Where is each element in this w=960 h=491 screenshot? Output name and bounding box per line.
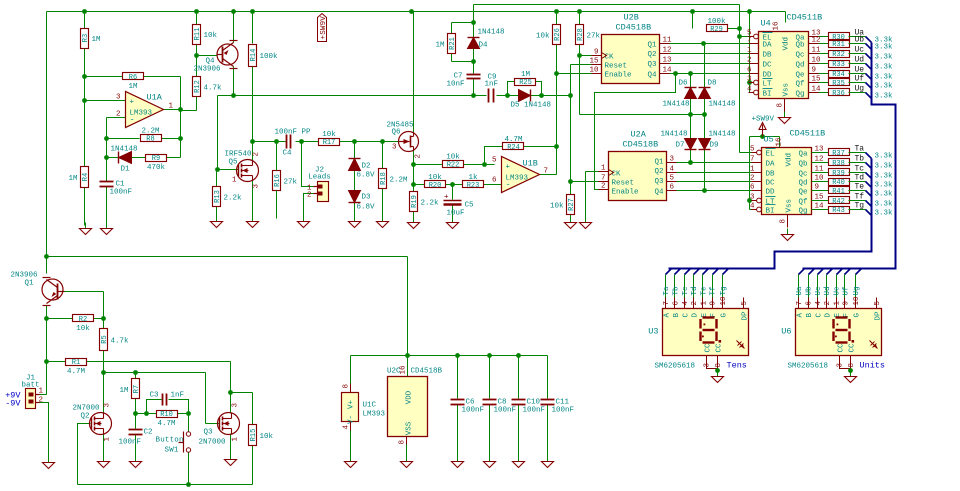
svg-text:10k: 10k: [322, 131, 336, 139]
diode D7: [660, 131, 696, 150]
ground at 216,221: [211, 216, 223, 228]
svg-text:3: 3: [253, 184, 261, 189]
svg-text:100nF: 100nF: [494, 407, 517, 415]
svg-text:2: 2: [415, 154, 423, 159]
svg-text:R14: R14: [250, 49, 258, 62]
svg-text:Q2: Q2: [81, 413, 90, 421]
svg-text:3: 3: [670, 156, 675, 164]
capacitor C5: [444, 194, 475, 218]
svg-text:1M: 1M: [92, 36, 102, 44]
mosfet Q5: [225, 151, 261, 189]
svg-text:10k: 10k: [76, 325, 90, 333]
diode D5: [511, 90, 552, 110]
svg-text:DA: DA: [763, 42, 773, 50]
svg-text:Enable: Enable: [612, 189, 639, 197]
svg-text:C8: C8: [498, 399, 507, 407]
ground at 135,461: [130, 456, 142, 468]
svg-text:1M: 1M: [128, 83, 138, 91]
node rail junctions: [82, 9, 752, 14]
svg-text:470k: 470k: [147, 164, 166, 172]
svg-text:Td: Td: [855, 174, 865, 183]
svg-text:7: 7: [796, 301, 804, 306]
svg-text:2: 2: [601, 183, 606, 191]
resistor R36 net Ug: [819, 85, 894, 101]
wire U2A Reset: [571, 181, 599, 183]
svg-text:13: 13: [663, 57, 673, 65]
svg-text:R43: R43: [832, 207, 845, 215]
svg-text:C6: C6: [466, 399, 476, 407]
svg-text:6.8V: 6.8V: [357, 172, 376, 180]
wire U1A output: [164, 77, 183, 158]
svg-text:Q4: Q4: [205, 58, 215, 66]
wire R29 right: [728, 26, 742, 39]
wire C8 column: [489, 356, 491, 459]
svg-text:2.2k: 2.2k: [224, 195, 243, 203]
switch SW1 Button: [156, 432, 191, 455]
svg-text:DP: DP: [875, 311, 883, 321]
mosfet Q3: [199, 403, 240, 447]
svg-text:DB: DB: [766, 171, 776, 179]
wire Q5 source: [252, 181, 254, 219]
svg-text:VSS: VSS: [406, 421, 414, 435]
svg-text:R29: R29: [710, 26, 723, 34]
svg-text:2: 2: [39, 397, 44, 405]
ground at 350,461: [345, 456, 357, 468]
bus entry + wire Ue to U6: [834, 269, 843, 298]
svg-text:EL: EL: [766, 151, 776, 159]
svg-text:5: 5: [670, 175, 675, 183]
svg-text:C11: C11: [556, 399, 570, 407]
wire EL-U5 row: [740, 152, 757, 154]
svg-text:6: 6: [806, 301, 814, 306]
ground at 303,221: [298, 216, 310, 228]
svg-text:C1: C1: [116, 181, 126, 189]
svg-text:9: 9: [812, 67, 817, 75]
wire Q2-DB row: [670, 53, 749, 55]
svg-text:7: 7: [544, 168, 549, 176]
wire U1A pin2: [107, 118, 126, 158]
svg-text:LM393: LM393: [130, 110, 153, 118]
svg-text:2N3906: 2N3906: [11, 272, 39, 280]
zener D2: [349, 159, 376, 180]
wire Q3 drain: [230, 393, 232, 414]
wire R26 column: [554, 12, 559, 76]
svg-text:Qa: Qa: [798, 151, 808, 159]
svg-text:1N4148: 1N4148: [111, 146, 138, 154]
wire U2A outputs: [676, 163, 752, 191]
resistor R5: [100, 329, 130, 351]
bus entry + wire Ua to U6: [796, 269, 805, 298]
bus entry + wire Uc to U6: [815, 269, 824, 298]
wire U2B CK row: [580, 55, 593, 57]
svg-text:Vss: Vss: [783, 83, 791, 97]
wire Q4-DD row: [670, 71, 749, 76]
svg-text:U3: U3: [648, 327, 658, 337]
wire R7 column: [133, 373, 138, 416]
wire D7 column: [688, 115, 693, 165]
svg-text:3.3k: 3.3k: [875, 83, 894, 91]
ground at 518,461: [513, 456, 525, 468]
svg-text:V+: V+: [348, 400, 356, 410]
resistor R10: [157, 411, 178, 429]
svg-text:CD4511B: CD4511B: [787, 13, 823, 23]
svg-text:R22: R22: [447, 162, 460, 170]
svg-text:Ta: Ta: [663, 286, 671, 296]
wire Q5 drain: [252, 142, 254, 161]
wire C11 column: [547, 356, 549, 459]
wire gate row y372: [104, 370, 206, 375]
svg-text:Ue: Ue: [855, 66, 865, 75]
wire J1 pin2: [36, 403, 49, 460]
wire Q6 drain: [413, 12, 415, 134]
svg-text:8: 8: [715, 363, 723, 368]
svg-text:5: 5: [741, 301, 749, 306]
display U3 SM6205618 Tens: [648, 296, 749, 375]
svg-text:1: 1: [701, 301, 709, 306]
wire R15: [231, 393, 253, 485]
svg-text:R39: R39: [832, 170, 845, 178]
diode D1: [111, 146, 138, 174]
svg-text:R25: R25: [519, 79, 532, 87]
svg-text:Uf: Uf: [843, 286, 851, 296]
svg-text:4: 4: [815, 301, 823, 306]
wire SW1 column: [188, 414, 190, 485]
svg-text:CD4518B: CD4518B: [623, 140, 659, 150]
wire R3 column: [82, 12, 87, 103]
svg-text:U2A: U2A: [631, 130, 647, 140]
svg-text:R31: R31: [832, 41, 845, 49]
svg-text:R1: R1: [72, 359, 80, 367]
bus entry + wire Tb to U3: [673, 269, 681, 298]
ground at 452,222: [447, 217, 459, 229]
wire R19 column: [413, 185, 415, 220]
svg-text:7: 7: [750, 156, 755, 164]
wire U1B output: [540, 74, 557, 175]
svg-text:R33: R33: [832, 61, 845, 69]
ground at 85,228: [80, 223, 92, 235]
svg-text:3.3k: 3.3k: [875, 191, 894, 199]
wire J2 pin1: [302, 142, 314, 187]
svg-text:VDD: VDD: [406, 390, 414, 404]
svg-text:C: C: [816, 313, 824, 318]
wire cascade enable: [595, 74, 676, 190]
svg-text:R7: R7: [133, 385, 141, 393]
svg-text:G: G: [721, 313, 729, 318]
svg-text:3: 3: [704, 363, 712, 368]
resistor R35 net Uf: [819, 75, 894, 91]
ground at 382,221: [377, 216, 389, 228]
svg-text:3: 3: [232, 403, 240, 408]
wire R18 column: [382, 142, 384, 219]
svg-text:1: 1: [169, 103, 174, 111]
display U6 SM6205618 Units: [781, 296, 885, 375]
svg-text:2: 2: [747, 57, 752, 65]
bus entry + wire Ub to U6: [806, 269, 815, 298]
wire D1 R9 row: [104, 155, 180, 160]
svg-text:27k: 27k: [284, 179, 298, 187]
wire D4 node: [452, 20, 476, 64]
bus U-nets: [803, 43, 896, 269]
svg-text:SM6205618: SM6205618: [655, 363, 696, 371]
wire Q5 gate column: [215, 96, 220, 172]
svg-text:7: 7: [601, 175, 606, 183]
zener D3: [349, 191, 376, 212]
wire D2 D3 column: [354, 142, 356, 219]
svg-text:2N7000: 2N7000: [199, 439, 227, 447]
svg-text:7: 7: [747, 37, 752, 45]
svg-text:Ud: Ud: [855, 56, 865, 65]
capacitor C4: [275, 129, 312, 158]
svg-text:D4: D4: [479, 42, 489, 50]
svg-text:6: 6: [750, 184, 755, 192]
mosfet Q2: [73, 403, 112, 442]
svg-text:10k: 10k: [260, 433, 274, 441]
wire bottom row: [78, 482, 253, 487]
svg-text:R19: R19: [411, 195, 419, 208]
svg-text:Qd: Qd: [795, 62, 804, 70]
resistor R33 net Ud: [819, 56, 894, 72]
svg-text:C10: C10: [527, 399, 541, 407]
wire R29 left drop: [692, 12, 694, 29]
wire C7 leads: [473, 62, 475, 96]
svg-text:D2: D2: [362, 163, 371, 171]
ground at 230,459: [225, 454, 237, 466]
resistor R40 net Td: [812, 174, 894, 190]
op-amp U1A: [116, 92, 174, 128]
resistor R39 net Tc: [812, 165, 894, 181]
wire C6 column: [457, 356, 459, 459]
svg-text:A: A: [664, 313, 672, 318]
svg-text:R41: R41: [832, 188, 845, 196]
wire Q4 emitter: [233, 12, 235, 43]
svg-text:Ue: Ue: [834, 286, 842, 295]
svg-text:U6: U6: [781, 327, 791, 337]
resistor R15: [249, 425, 274, 446]
svg-text:C7: C7: [453, 73, 462, 81]
svg-text:3: 3: [104, 403, 112, 408]
wire Q1 base: [65, 292, 106, 321]
capacitor C3: [149, 392, 184, 406]
svg-text:1: 1: [747, 47, 752, 55]
resistor R29: [707, 18, 728, 34]
svg-text:C: C: [683, 313, 691, 318]
svg-text:3.3k: 3.3k: [875, 44, 894, 52]
wire supply row y355: [351, 353, 548, 358]
wire U1A pin3: [85, 100, 126, 102]
svg-text:1k: 1k: [468, 174, 478, 182]
svg-text:R15: R15: [250, 429, 258, 442]
wire C5 column: [452, 185, 454, 220]
svg-text:Q6: Q6: [391, 129, 401, 137]
resistor R22: [443, 154, 464, 170]
ground at 413,222: [408, 217, 420, 229]
svg-text:Enable: Enable: [605, 72, 632, 80]
svg-text:LM393: LM393: [363, 411, 386, 419]
op-amp U1B: [492, 157, 548, 193]
diode D9: [699, 131, 736, 150]
svg-text:4.7M: 4.7M: [157, 420, 176, 428]
transistor Q4: [193, 41, 238, 74]
svg-text:R8: R8: [146, 136, 154, 144]
IC U4 CD4511B: [747, 13, 822, 112]
wire battery column: [36, 254, 49, 394]
svg-text:2N7000: 2N7000: [73, 405, 101, 413]
svg-text:1N4148: 1N4148: [709, 131, 736, 139]
svg-text:U1C: U1C: [363, 402, 377, 410]
svg-text:4: 4: [747, 86, 752, 94]
svg-text:100nF: 100nF: [523, 407, 546, 415]
svg-text:8: 8: [343, 384, 351, 389]
svg-text:D6: D6: [679, 80, 689, 88]
svg-text:LM393: LM393: [506, 175, 529, 183]
svg-text:2.2M: 2.2M: [141, 128, 160, 136]
svg-text:3.3k: 3.3k: [875, 182, 894, 190]
diode D8: [699, 80, 736, 109]
svg-text:6: 6: [747, 67, 752, 75]
ground U5 Vss: [782, 229, 794, 241]
svg-text:1M: 1M: [435, 42, 445, 50]
svg-text:Qf: Qf: [795, 81, 805, 89]
svg-text:100nF: 100nF: [119, 439, 142, 447]
svg-text:R18: R18: [380, 172, 388, 185]
ground at 106,228: [101, 223, 113, 235]
wire R8 row: [104, 136, 180, 141]
svg-text:U5: U5: [764, 135, 774, 145]
wire U2B Reset row: [571, 64, 593, 66]
svg-text:C5: C5: [465, 202, 475, 210]
svg-text:1: 1: [601, 165, 606, 173]
wire EL-U4 row: [740, 36, 754, 38]
svg-text:10nF: 10nF: [446, 81, 464, 89]
capacitor C6: [451, 399, 485, 415]
svg-text:Ua: Ua: [796, 286, 804, 296]
resistor R43 net Tg: [812, 202, 894, 218]
power flag +SW9V U5: [752, 116, 775, 137]
bus entry + wire Tc to U3: [682, 269, 691, 298]
resistor R18: [379, 169, 409, 189]
svg-text:R16: R16: [274, 174, 282, 187]
svg-text:100nF PP: 100nF PP: [275, 129, 312, 137]
svg-text:4.7M: 4.7M: [504, 136, 523, 144]
wire R16 column: [274, 139, 279, 218]
svg-text:Q4: Q4: [654, 189, 664, 197]
resistor R25: [515, 71, 536, 87]
svg-text:Td: Td: [691, 286, 699, 295]
wire y114 row: [580, 112, 707, 117]
svg-text:11: 11: [663, 37, 673, 45]
svg-text:6: 6: [492, 177, 497, 185]
svg-text:Q3: Q3: [647, 61, 657, 69]
svg-text:Ug: Ug: [853, 286, 861, 295]
svg-text:Q3: Q3: [204, 429, 214, 437]
svg-text:Ug: Ug: [855, 85, 865, 94]
svg-text:10k: 10k: [428, 174, 442, 182]
connector J1: [5, 375, 43, 409]
svg-text:15: 15: [589, 58, 599, 66]
wire U4 LT BI column: [747, 12, 753, 93]
svg-text:Qb: Qb: [795, 42, 804, 50]
svg-text:Tg: Tg: [855, 202, 865, 211]
svg-text:10: 10: [589, 67, 599, 75]
svg-text:1: 1: [232, 177, 237, 185]
svg-text:100k: 100k: [260, 53, 279, 61]
resistor R2: [73, 315, 94, 334]
svg-text:A: A: [797, 313, 805, 318]
wire C10 column: [518, 356, 520, 459]
wire R4 column: [84, 101, 86, 226]
svg-text:R20: R20: [429, 182, 442, 190]
svg-text:R34: R34: [832, 71, 845, 79]
svg-text:2: 2: [253, 152, 261, 157]
svg-text:9: 9: [594, 49, 599, 57]
svg-text:R36: R36: [832, 90, 845, 98]
svg-text:V-: V-: [348, 415, 356, 424]
svg-text:Qc: Qc: [795, 52, 804, 60]
svg-text:+SW9V: +SW9V: [320, 16, 328, 40]
svg-text:+: +: [444, 194, 449, 202]
bus entry + wire Tf to U3: [710, 269, 719, 298]
svg-text:Q2: Q2: [647, 51, 656, 59]
svg-text:Tc: Tc: [682, 286, 690, 295]
svg-text:R40: R40: [832, 179, 845, 187]
svg-text:D5 1N4148: D5 1N4148: [511, 102, 552, 110]
svg-text:10k: 10k: [536, 33, 550, 41]
svg-text:Te: Te: [701, 286, 709, 295]
svg-text:3.3k: 3.3k: [875, 64, 894, 72]
wire Q3-DC row: [670, 63, 749, 65]
capacitor C10: [512, 399, 546, 415]
ground at 252,221: [247, 216, 259, 228]
svg-text:Q1: Q1: [654, 159, 664, 167]
svg-text:3.3k: 3.3k: [875, 163, 894, 171]
wire +SW9V row U5: [747, 134, 779, 209]
wire R22 row: [414, 162, 495, 167]
capacitor C9: [485, 74, 499, 103]
capacitor C2: [119, 429, 153, 447]
svg-text:3: 3: [750, 194, 755, 202]
svg-text:1nF: 1nF: [485, 81, 499, 89]
svg-text:8: 8: [780, 219, 788, 224]
ground at 48,462: [43, 457, 55, 469]
ground at 406,461: [401, 456, 413, 468]
wire Q6 source: [411, 150, 416, 167]
svg-text:16: 16: [776, 137, 784, 147]
svg-text:100nF: 100nF: [110, 189, 133, 197]
svg-text:R13: R13: [214, 190, 222, 203]
resistor R13: [213, 187, 243, 207]
resistor R16: [273, 171, 298, 191]
svg-text:3: 3: [747, 76, 752, 84]
resistor R41 net Te: [812, 183, 894, 199]
wire R5 column: [101, 319, 106, 375]
bus entry + wire Ud to U6: [824, 269, 833, 298]
ground U6: [845, 371, 857, 383]
svg-text:6: 6: [670, 184, 675, 192]
resistor R8: [141, 128, 162, 144]
IC power U2C CD4518B: [387, 365, 443, 445]
svg-text:2: 2: [750, 175, 755, 183]
svg-text:3.3k: 3.3k: [875, 93, 894, 101]
svg-text:R10: R10: [160, 411, 173, 419]
svg-text:1: 1: [750, 166, 755, 174]
svg-text:R11: R11: [194, 28, 202, 41]
svg-text:4.7k: 4.7k: [111, 338, 130, 346]
svg-text:Tens: Tens: [727, 361, 747, 371]
bus entry + wire Te to U3: [701, 269, 709, 298]
wire R10 row: [136, 411, 191, 416]
wire Q4 collector: [231, 67, 236, 98]
jfet Q6: [386, 122, 422, 159]
